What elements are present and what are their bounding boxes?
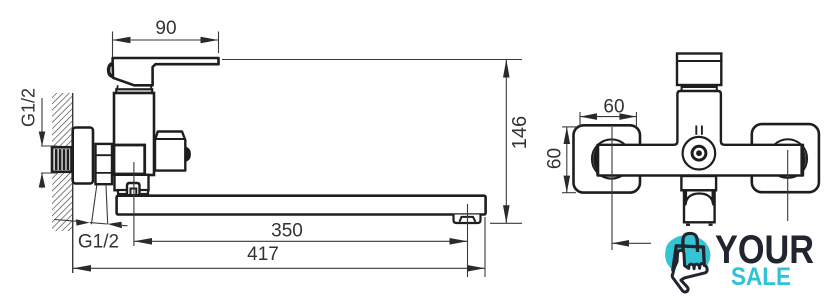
svg-text:60: 60: [545, 148, 566, 169]
svg-text:90: 90: [155, 18, 176, 39]
svg-text:146: 146: [509, 116, 531, 149]
svg-text:SALE: SALE: [731, 263, 791, 291]
svg-text:G1/2: G1/2: [19, 88, 39, 127]
svg-text:350: 350: [271, 221, 303, 242]
svg-text:G1/2: G1/2: [78, 232, 119, 253]
svg-text:417: 417: [247, 244, 279, 265]
svg-text:60: 60: [603, 97, 624, 118]
